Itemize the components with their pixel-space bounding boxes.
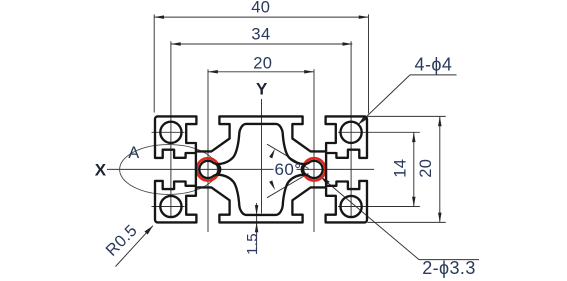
svg-text:20: 20	[253, 54, 272, 72]
svg-text:14: 14	[392, 159, 410, 178]
red highlight ring right hole	[303, 158, 325, 180]
svg-text:4-ϕ4: 4-ϕ4	[415, 55, 453, 75]
leader R0.5 (corner radius)	[103, 221, 153, 266]
dimension 14 (hole pitch vertical)	[338, 132, 420, 206]
Y axis centreline	[256, 80, 268, 214]
svg-text:1.5: 1.5	[244, 233, 261, 255]
svg-text:20: 20	[417, 159, 435, 178]
dimension 20 (centre hole pitch)	[208, 54, 314, 232]
leader 4-dia4 (corner holes)	[358, 55, 457, 125]
X axis centreline	[95, 161, 374, 180]
centre hole dia3.3 left	[199, 161, 219, 178]
centre hole dia3.3 right	[303, 161, 323, 178]
corner hole dia4 top-right	[341, 122, 362, 143]
dimension 34 (hole pitch horizontal)	[171, 25, 352, 218]
dimension 20 (overall height)	[368, 116, 446, 222]
dimension 1.5 (wall thickness)	[244, 203, 261, 255]
angle 60 degrees (cavity walls)	[267, 144, 309, 198]
detail view ellipse A	[120, 144, 218, 195]
svg-text:2-ϕ3.3: 2-ϕ3.3	[422, 258, 476, 278]
svg-text:A: A	[128, 144, 139, 162]
corner hole dia4 bottom-left	[160, 196, 181, 217]
svg-text:Y: Y	[256, 80, 268, 99]
svg-text:X: X	[95, 161, 107, 180]
dimension 40 (overall width)	[154, 0, 368, 114]
red highlight ring left hole	[197, 158, 219, 180]
profile outer contour with T-slots	[155, 116, 367, 222]
central cavity	[218, 124, 305, 215]
corner hole centrelines	[152, 132, 185, 206]
leader 2-dia3.3 (centre holes)	[321, 177, 479, 278]
svg-text:34: 34	[251, 25, 270, 43]
svg-text:40: 40	[251, 0, 270, 17]
corner hole dia4 bottom-right	[341, 196, 362, 217]
corner hole dia4 top-left	[160, 122, 181, 143]
